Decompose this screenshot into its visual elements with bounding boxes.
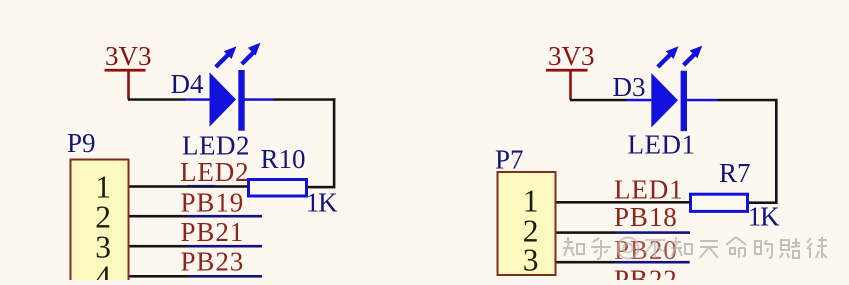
svg-text:P9: P9 [67,128,96,158]
wire: 3V3 to LED D4 anode [128,98,186,101]
LED D4 cathode bar [238,70,244,131]
svg-text:PB21: PB21 [181,217,245,247]
LED D3 anode pin [627,99,651,102]
LED D3 cathode bar [681,71,687,131]
LED D4 emission arrow 2 [242,52,254,64]
connector P9 body [71,160,129,285]
svg-text:PB18: PB18 [614,202,678,232]
wire: vertical drop to R10 [333,98,336,188]
LED D3 emission arrow 2 [684,54,696,66]
power port 3V3 (left) stem [127,71,130,100]
svg-text:PB23: PB23 [181,247,245,277]
wire: P9 pin 4 black segment [129,275,188,278]
svg-text:LED2: LED2 [182,131,250,161]
watermark char 命 [726,237,746,258]
watermark char 赌 [780,238,800,258]
wire: 3V3 to LED D3 anode [570,99,627,102]
resistor R10 body [249,180,307,197]
svg-text:D4: D4 [171,69,204,99]
watermark char 天 [700,241,718,258]
power port 3V3 (left) bar [105,69,146,72]
svg-text:3V3: 3V3 [548,41,595,71]
wire: P7 pin 2 black segment [556,231,616,234]
LED D3 cathode pin [687,99,717,102]
wire: P9 pin 2 black segment [129,215,188,218]
resistor R7 body [691,194,748,211]
wire: D3 cathode to corner [717,99,778,102]
wire: P7 pin 1 to R7 [556,201,691,204]
svg-text:R10: R10 [261,144,306,174]
LED D3 triangle [651,73,678,128]
svg-text:4: 4 [95,259,111,280]
wire: horizontal into R10 right terminal [308,186,335,189]
LED D4 cathode pin [244,98,274,101]
wire: D4 cathode to corner [274,98,336,101]
power port 3V3 (right) stem [569,71,572,101]
svg-text:LED1: LED1 [628,130,696,160]
svg-text:P7: P7 [495,145,524,175]
wire: P9 pin 3 net segment [188,245,263,248]
LED D4 emission arrow 1 [216,54,229,67]
watermark char 乎 [591,238,611,259]
svg-text:3: 3 [523,243,539,278]
svg-text:D3: D3 [613,72,646,102]
wire: P9 pin 2 net segment [188,215,263,218]
connector P7 body [498,172,556,275]
wire: vertical drop to R7 [775,99,778,204]
wire: P9 pin 1 to R10 [129,185,249,188]
wire: P7 pin 3 net segment [615,261,690,264]
svg-text:1K: 1K [748,201,780,231]
svg-text:PB22: PB22 [614,265,678,281]
net stub overlay on pin1 wire [188,185,216,186]
watermark char 知 (2) [671,237,692,256]
svg-text:3V3: 3V3 [105,41,152,71]
svg-text:LED2: LED2 [180,157,250,187]
wire: P7 pin 2 net segment [616,231,690,234]
LED D4 triangle [210,72,237,127]
wire: P9 pin 3 black segment [129,245,188,248]
svg-text:PB19: PB19 [181,187,245,217]
watermark wash over PB20 [612,238,678,261]
wire: P7 pin 3 black segment [556,261,616,264]
watermark char 不 [645,240,665,258]
wire: P9 pin 4 net segment [188,275,263,278]
LED D4 anode pin [185,98,210,101]
svg-text:LED1: LED1 [614,174,684,204]
svg-text:R7: R7 [719,158,751,188]
watermark char 的 [755,240,772,258]
LED D3 emission arrow 1 [658,54,671,67]
watermark char 徒 [807,237,827,258]
power port 3V3 (right) bar [546,69,588,72]
svg-text:1K: 1K [306,187,338,217]
watermark 知乎@不知天命的赌徒 [563,237,827,259]
watermark char 知 [563,237,584,256]
wire: horizontal into R7 right terminal [748,201,775,204]
watermark char @ [618,238,639,259]
